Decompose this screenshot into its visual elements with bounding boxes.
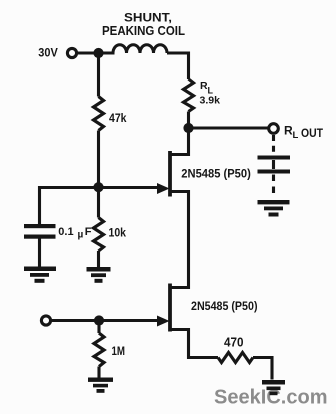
wire 1M to ground (97, 367, 100, 379)
node C junction dot (drain / output) (183, 123, 193, 133)
svg-text:F: F (85, 226, 92, 238)
svg-text:10k: 10k (109, 227, 127, 239)
wire 470 to ground (253, 358, 272, 380)
capacitor C2 load (bottom plate) (258, 170, 291, 174)
svg-text:L: L (293, 130, 299, 141)
wire node B to Q1 gate (99, 186, 159, 189)
wire C1 to ground (38, 239, 41, 268)
transistor Q1 2N5485 drain lead (172, 128, 189, 155)
capacitor C1 0.1uF (bottom plate) (24, 235, 56, 239)
wire 47k to node B (97, 131, 100, 188)
transistor Q2 gate arrow (157, 316, 170, 327)
transistor Q2 channel bar (168, 284, 172, 332)
wire RL bottom to drain node (187, 112, 190, 129)
svg-text:470: 470 (224, 336, 244, 350)
terminal RL OUT circle (269, 124, 279, 134)
svg-text:SHUNT,: SHUNT, (124, 11, 172, 25)
svg-text:µ: µ (78, 230, 84, 241)
node B junction dot (gate bias node) (93, 182, 103, 192)
terminal input circle (41, 316, 50, 325)
ground (470) (262, 380, 285, 395)
svg-text:30V: 30V (38, 46, 58, 60)
svg-text:0.1: 0.1 (58, 226, 73, 238)
capacitor C1 0.1uF (top plate) (24, 224, 56, 228)
transistor Q1 source lead joining Q2 drain (172, 192, 189, 288)
svg-text:2N5485 (P50): 2N5485 (P50) (181, 167, 251, 181)
dashed wire load cap to ground (272, 175, 275, 198)
wire node B down to 10k (97, 188, 100, 218)
svg-text:PEAKING COIL: PEAKING COIL (102, 24, 185, 38)
wire 10k to ground (97, 251, 100, 267)
resistor R2 10k (94, 218, 104, 252)
svg-text:47k: 47k (109, 113, 127, 125)
svg-text:3.9k: 3.9k (200, 95, 221, 107)
resistor RL 3.9k (184, 79, 194, 112)
terminal 30V input circle (67, 48, 76, 57)
wire drain node to output terminal (189, 126, 269, 129)
wire 30V terminal to node A (77, 51, 95, 54)
svg-text:OUT: OUT (301, 126, 324, 140)
wire node B left to capacitor C1 (40, 188, 99, 225)
wire node D down to 1M (97, 321, 100, 334)
node D junction dot (input) (94, 315, 104, 325)
node A junction dot (30V rail) (93, 48, 103, 58)
dashed wire output terminal to load cap (272, 135, 275, 153)
inductor L1 shunt peaking coil (99, 45, 168, 53)
resistor R4 470 (218, 353, 253, 363)
resistor R3 1M (94, 333, 104, 367)
resistor R1 47k (94, 97, 104, 131)
ground (10k) (87, 267, 111, 283)
transistor Q1 gate arrow (157, 183, 170, 194)
transistor Q2 source lead (172, 330, 219, 358)
transistor Q1 channel bar (168, 151, 172, 197)
ground (C1) (24, 267, 56, 283)
svg-text:1M: 1M (112, 344, 126, 358)
wire coil to RL resistor (167, 53, 189, 79)
dashed stub between load cap plates (272, 160, 275, 169)
wire input terminal to Q2 gate (51, 319, 158, 322)
ground (1M) (88, 378, 113, 393)
capacitor C2 load (top plate) (258, 156, 291, 160)
wire node A down to 47k (97, 53, 100, 97)
ground (output load) (258, 200, 290, 217)
svg-text:2N5485 (P50): 2N5485 (P50) (191, 299, 258, 313)
